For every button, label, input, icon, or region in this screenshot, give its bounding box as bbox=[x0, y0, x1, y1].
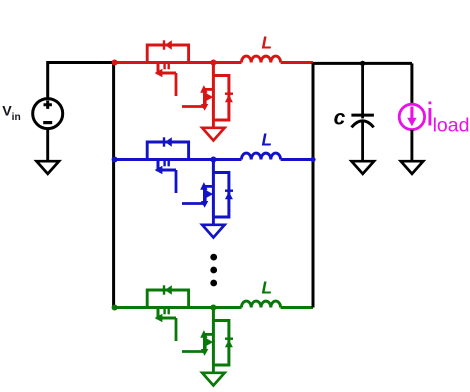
wire phase 2 (blue) switch-node segment bbox=[189, 158, 242, 161]
node n (green) switch node bbox=[210, 305, 216, 311]
diode D6 body diode of Q6 bbox=[225, 339, 233, 348]
wire top-left from Vin to input bus bbox=[48, 63, 115, 99]
svg-text:c: c bbox=[334, 107, 346, 130]
svg-text:L: L bbox=[262, 278, 273, 298]
current source iload bbox=[399, 104, 424, 129]
diode D3 body diode of Q3 bbox=[164, 137, 172, 146]
wire phase 2 (blue) input segment bbox=[114, 158, 242, 161]
ground phase 2 (blue) bbox=[202, 217, 224, 238]
ground load bbox=[401, 161, 423, 174]
diode D2 body diode of Q2 bbox=[225, 94, 233, 103]
transistor Q4 low-side MOSFET bbox=[182, 160, 229, 218]
wire top-right output node to load bbox=[313, 62, 412, 65]
transistor Q1 high-side MOSFET bbox=[147, 45, 188, 96]
wire phase 1 (red) switch-node segment bbox=[189, 61, 242, 64]
node n (green) input junction bbox=[112, 305, 118, 311]
wire load branch lower bbox=[410, 130, 413, 161]
transistor Q2 low-side MOSFET bbox=[182, 63, 229, 121]
wire capacitor branch upper bbox=[361, 63, 364, 118]
svg-text:Vin: Vin bbox=[2, 104, 21, 123]
ground input source bbox=[37, 161, 60, 174]
ground phase n (green) bbox=[202, 365, 224, 386]
wire left input bus bbox=[112, 63, 115, 308]
node 2 (blue) switch node bbox=[210, 157, 216, 163]
diode D5 body diode of Q5 bbox=[164, 285, 172, 294]
node 1 (red) input junction bbox=[112, 60, 118, 66]
node 1 (red) switch node bbox=[210, 60, 216, 66]
node capacitor junction bbox=[360, 61, 365, 66]
svg-text:L: L bbox=[262, 33, 273, 53]
diode D4 body diode of Q4 bbox=[225, 191, 233, 200]
ground capacitor bbox=[352, 161, 375, 174]
svg-text:load: load bbox=[433, 115, 470, 137]
diode D1 body diode of Q1 bbox=[164, 40, 172, 49]
voltage source Vin bbox=[33, 99, 63, 129]
wire phase 2 (blue) output segment bbox=[281, 158, 313, 161]
wire load branch upper bbox=[410, 63, 413, 104]
wire phase 1 (red) output segment bbox=[281, 61, 313, 64]
inductor L1 phase 1 (red) bbox=[241, 56, 280, 62]
wire phase n (green) input segment bbox=[114, 306, 242, 309]
wire Vin to ground bbox=[46, 129, 49, 161]
node 2 (blue) input junction bbox=[112, 157, 118, 163]
node ellipsis dots for additional phases bbox=[210, 254, 217, 287]
wire phase n (green) switch-node segment bbox=[189, 306, 242, 309]
transistor Q3 high-side MOSFET bbox=[147, 142, 188, 193]
wire capacitor branch lower bbox=[361, 122, 364, 161]
wire phase n (green) output segment bbox=[281, 306, 313, 309]
inductor L3 phase n (green) bbox=[241, 301, 280, 307]
capacitor C bbox=[351, 115, 374, 127]
ground phase 1 (red) bbox=[202, 120, 224, 141]
node output bus blue junction bbox=[310, 157, 315, 162]
transistor Q6 low-side MOSFET bbox=[182, 308, 229, 366]
wire phase 1 (red) input segment bbox=[114, 61, 242, 64]
svg-text:L: L bbox=[262, 130, 273, 150]
transistor Q5 high-side MOSFET bbox=[147, 290, 188, 341]
wire right output bus bbox=[312, 63, 315, 308]
inductor L2 phase 2 (blue) bbox=[241, 153, 280, 159]
